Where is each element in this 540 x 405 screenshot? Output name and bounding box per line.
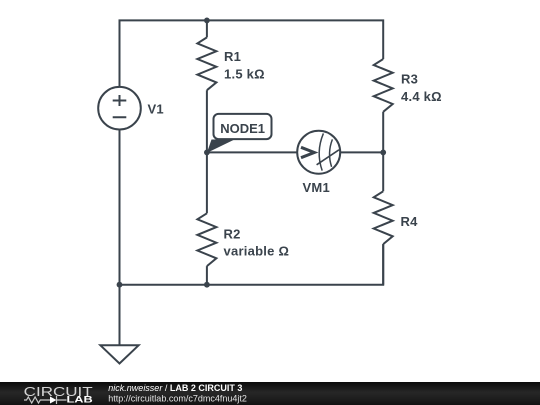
- svg-text:V1: V1: [148, 102, 164, 117]
- svg-text:LAB: LAB: [67, 395, 93, 405]
- ground: [100, 345, 138, 363]
- wire middle top: [206, 20, 208, 37]
- wire middle R1 to node: [206, 90, 208, 152]
- resistor R1: [197, 37, 216, 90]
- wire node to R2: [206, 152, 208, 213]
- wire VM1 to right branch: [340, 151, 383, 153]
- node NODE1 flag: [207, 114, 272, 153]
- node junction dot bottom middle: [204, 282, 210, 288]
- wire right R4 to bottom: [382, 244, 384, 285]
- svg-text:variable Ω: variable Ω: [224, 244, 290, 259]
- voltmeter VM1: [297, 131, 340, 174]
- wire left branch lower: [119, 130, 121, 285]
- svg-text:NODE1: NODE1: [220, 121, 265, 136]
- svg-text:R4: R4: [401, 214, 419, 229]
- wire right R3 to R4: [382, 112, 384, 192]
- svg-text:nick.nweisser / LAB 2 CIRCUIT: nick.nweisser / LAB 2 CIRCUIT 3: [108, 383, 242, 393]
- node junction dot right: [380, 150, 386, 156]
- svg-text:1.5 kΩ: 1.5 kΩ: [224, 67, 265, 82]
- wire bottom rail: [120, 244, 384, 285]
- wire R2 to bottom: [206, 266, 208, 285]
- wire ground stem: [119, 285, 121, 346]
- svg-text:VM1: VM1: [303, 180, 330, 195]
- resistor R4: [374, 191, 393, 244]
- node junction dot top: [204, 18, 210, 24]
- wire node to VM1: [207, 151, 297, 153]
- svg-text:http://circuitlab.com/c7dmc4fn: http://circuitlab.com/c7dmc4fnu4jt2: [108, 394, 247, 404]
- wire top rail: [120, 20, 384, 87]
- CircuitLab logo: [24, 384, 93, 405]
- svg-text:R2: R2: [224, 227, 241, 242]
- svg-text:4.4 kΩ: 4.4 kΩ: [401, 89, 442, 104]
- voltage source V1: [98, 87, 141, 130]
- node junction dot bottom left: [117, 282, 123, 288]
- resistor R3: [374, 59, 393, 112]
- node NODE1 junction dot: [204, 150, 210, 156]
- resistor R2: [197, 213, 216, 266]
- footer bar: [0, 382, 540, 405]
- svg-text:R1: R1: [224, 49, 241, 64]
- svg-text:R3: R3: [401, 72, 418, 87]
